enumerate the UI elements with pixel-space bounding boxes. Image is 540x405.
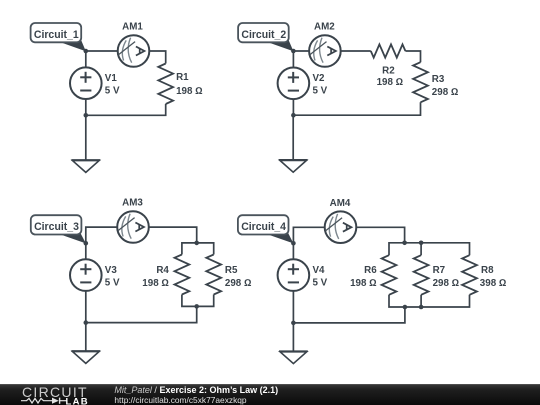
svg-text:V1: V1 xyxy=(105,73,118,84)
svg-text:298 Ω: 298 Ω xyxy=(433,278,460,289)
svg-text:Circuit_4: Circuit_4 xyxy=(241,221,287,233)
wire V1 top stub xyxy=(85,51,87,67)
wire V4 bottom stub xyxy=(292,291,294,323)
wire R1 bottom to bottom rail xyxy=(86,104,166,115)
wire AM4 to parallel network top xyxy=(356,227,404,243)
ammeter AM4 xyxy=(325,211,357,243)
svg-text:Circuit_2: Circuit_2 xyxy=(241,29,286,41)
node label attach C3 xyxy=(84,241,89,246)
svg-text:198 Ω: 198 Ω xyxy=(142,278,169,289)
ammeter AM2 xyxy=(309,35,341,67)
wire node to ammeter AM1 xyxy=(86,50,118,52)
junction node bottom of V2 xyxy=(291,113,296,118)
svg-text:R3: R3 xyxy=(432,74,445,85)
wire R3 bottom to bottom rail xyxy=(293,102,420,115)
svg-text:R6: R6 xyxy=(364,265,377,276)
wire network bottom to main rail xyxy=(293,307,405,323)
junction node bottom rail C3 xyxy=(194,304,199,309)
ammeter AM3 xyxy=(117,211,149,243)
junction node bottom of V1 xyxy=(84,113,89,118)
svg-text:198 Ω: 198 Ω xyxy=(350,278,377,289)
CircuitLab logo xyxy=(21,384,89,405)
svg-text:298 Ω: 298 Ω xyxy=(225,278,252,289)
svg-text:LAB: LAB xyxy=(66,396,89,405)
resistor R5 xyxy=(206,255,221,295)
wire R2 to R3 top corner xyxy=(405,51,420,62)
ground 1 xyxy=(71,160,100,172)
top rail of R4-R5 xyxy=(182,243,214,255)
ground 3 xyxy=(71,351,100,363)
flag label Circuit_3 xyxy=(31,215,86,243)
wire V3 bottom stub xyxy=(85,291,87,323)
svg-text:398 Ω: 398 Ω xyxy=(480,278,507,289)
svg-text:R4: R4 xyxy=(156,265,169,276)
wire to ground 1 xyxy=(85,115,87,160)
svg-text:V2: V2 xyxy=(313,73,326,84)
wire AM3 to parallel network top xyxy=(149,227,197,243)
voltage source V1 xyxy=(70,67,102,99)
wire V2 bottom stub xyxy=(292,99,294,115)
wire to ground 3 xyxy=(85,323,87,351)
ground 2 xyxy=(279,160,308,172)
svg-text:R1: R1 xyxy=(176,72,189,83)
junction node top rail C3 xyxy=(194,241,199,246)
svg-text:AM1: AM1 xyxy=(122,22,143,33)
wire to ground 2 xyxy=(292,115,294,160)
resistor R7 xyxy=(414,255,429,295)
svg-text:Mit_Patel / Exercise 2: Ohm’s: Mit_Patel / Exercise 2: Ohm’s Law (2.1) xyxy=(114,385,278,395)
wire node up to ammeter row xyxy=(86,227,117,243)
resistor R2 xyxy=(371,44,406,57)
voltage source V2 xyxy=(278,68,310,100)
wire to ground 4 xyxy=(292,323,294,351)
junction node bottom R7 xyxy=(419,305,424,310)
node label attach C4 xyxy=(291,241,296,246)
junction node bottom of V3 xyxy=(84,320,89,325)
svg-text:V3: V3 xyxy=(105,265,118,276)
flag label Circuit_1 xyxy=(31,23,86,51)
svg-text:198 Ω: 198 Ω xyxy=(176,86,203,97)
resistor R3 xyxy=(413,62,428,102)
node at top of V2 xyxy=(291,49,296,54)
svg-text:AM4: AM4 xyxy=(330,198,351,209)
svg-text:R5: R5 xyxy=(225,265,238,276)
svg-text:5 V: 5 V xyxy=(313,86,328,97)
ammeter AM1 xyxy=(118,35,150,67)
svg-text:5 V: 5 V xyxy=(313,277,328,288)
wire AM1 to R1 top corner xyxy=(149,51,165,64)
svg-text:R8: R8 xyxy=(481,265,494,276)
bottom rail of R6-R7-R8 xyxy=(389,295,470,307)
wire AM2 to R2 xyxy=(341,50,371,52)
wire node to ammeter AM2 xyxy=(293,50,309,52)
top rail of R6-R7-R8 xyxy=(389,243,470,255)
wire V2 top stub xyxy=(292,51,294,67)
svg-text:http://circuitlab.com/c5xk77ae: http://circuitlab.com/c5xk77aexzkqp xyxy=(114,395,247,405)
wire V3 top stub xyxy=(85,243,87,259)
svg-text:V4: V4 xyxy=(313,265,326,276)
svg-text:AM3: AM3 xyxy=(122,198,143,209)
svg-text:198 Ω: 198 Ω xyxy=(377,77,404,88)
voltage source V4 xyxy=(278,259,310,291)
wire R7 bottom stub xyxy=(420,295,422,307)
svg-text:5 V: 5 V xyxy=(105,86,120,97)
node at top of V1 xyxy=(84,49,89,54)
ground 4 xyxy=(279,351,308,363)
voltage source V3 xyxy=(70,259,102,291)
flag label Circuit_2 xyxy=(238,23,293,51)
resistor R8 xyxy=(462,255,477,295)
svg-text:5 V: 5 V xyxy=(105,277,120,288)
svg-text:298 Ω: 298 Ω xyxy=(432,87,459,98)
resistor R1 xyxy=(158,64,173,105)
wire R7 top stub xyxy=(420,243,422,255)
svg-text:R7: R7 xyxy=(433,265,446,276)
svg-text:Circuit_1: Circuit_1 xyxy=(34,29,79,41)
wire network bottom to main rail xyxy=(86,306,197,322)
svg-text:R2: R2 xyxy=(382,66,395,77)
junction node bottom of V4 xyxy=(291,321,296,326)
wire node up to ammeter AM4 xyxy=(293,227,324,243)
svg-text:Circuit_3: Circuit_3 xyxy=(34,221,79,233)
resistor R6 xyxy=(382,255,397,295)
wire V4 top stub xyxy=(292,243,294,259)
junction node top feed C4 xyxy=(402,241,407,246)
resistor R4 xyxy=(175,255,190,295)
flag label Circuit_4 xyxy=(238,215,294,243)
svg-text:AM2: AM2 xyxy=(314,22,335,33)
junction node bottom feed C4 xyxy=(403,305,408,310)
wire V1 bottom stub xyxy=(85,99,87,115)
junction node top R7 xyxy=(419,241,424,246)
bottom rail of R4-R5 xyxy=(182,295,214,307)
